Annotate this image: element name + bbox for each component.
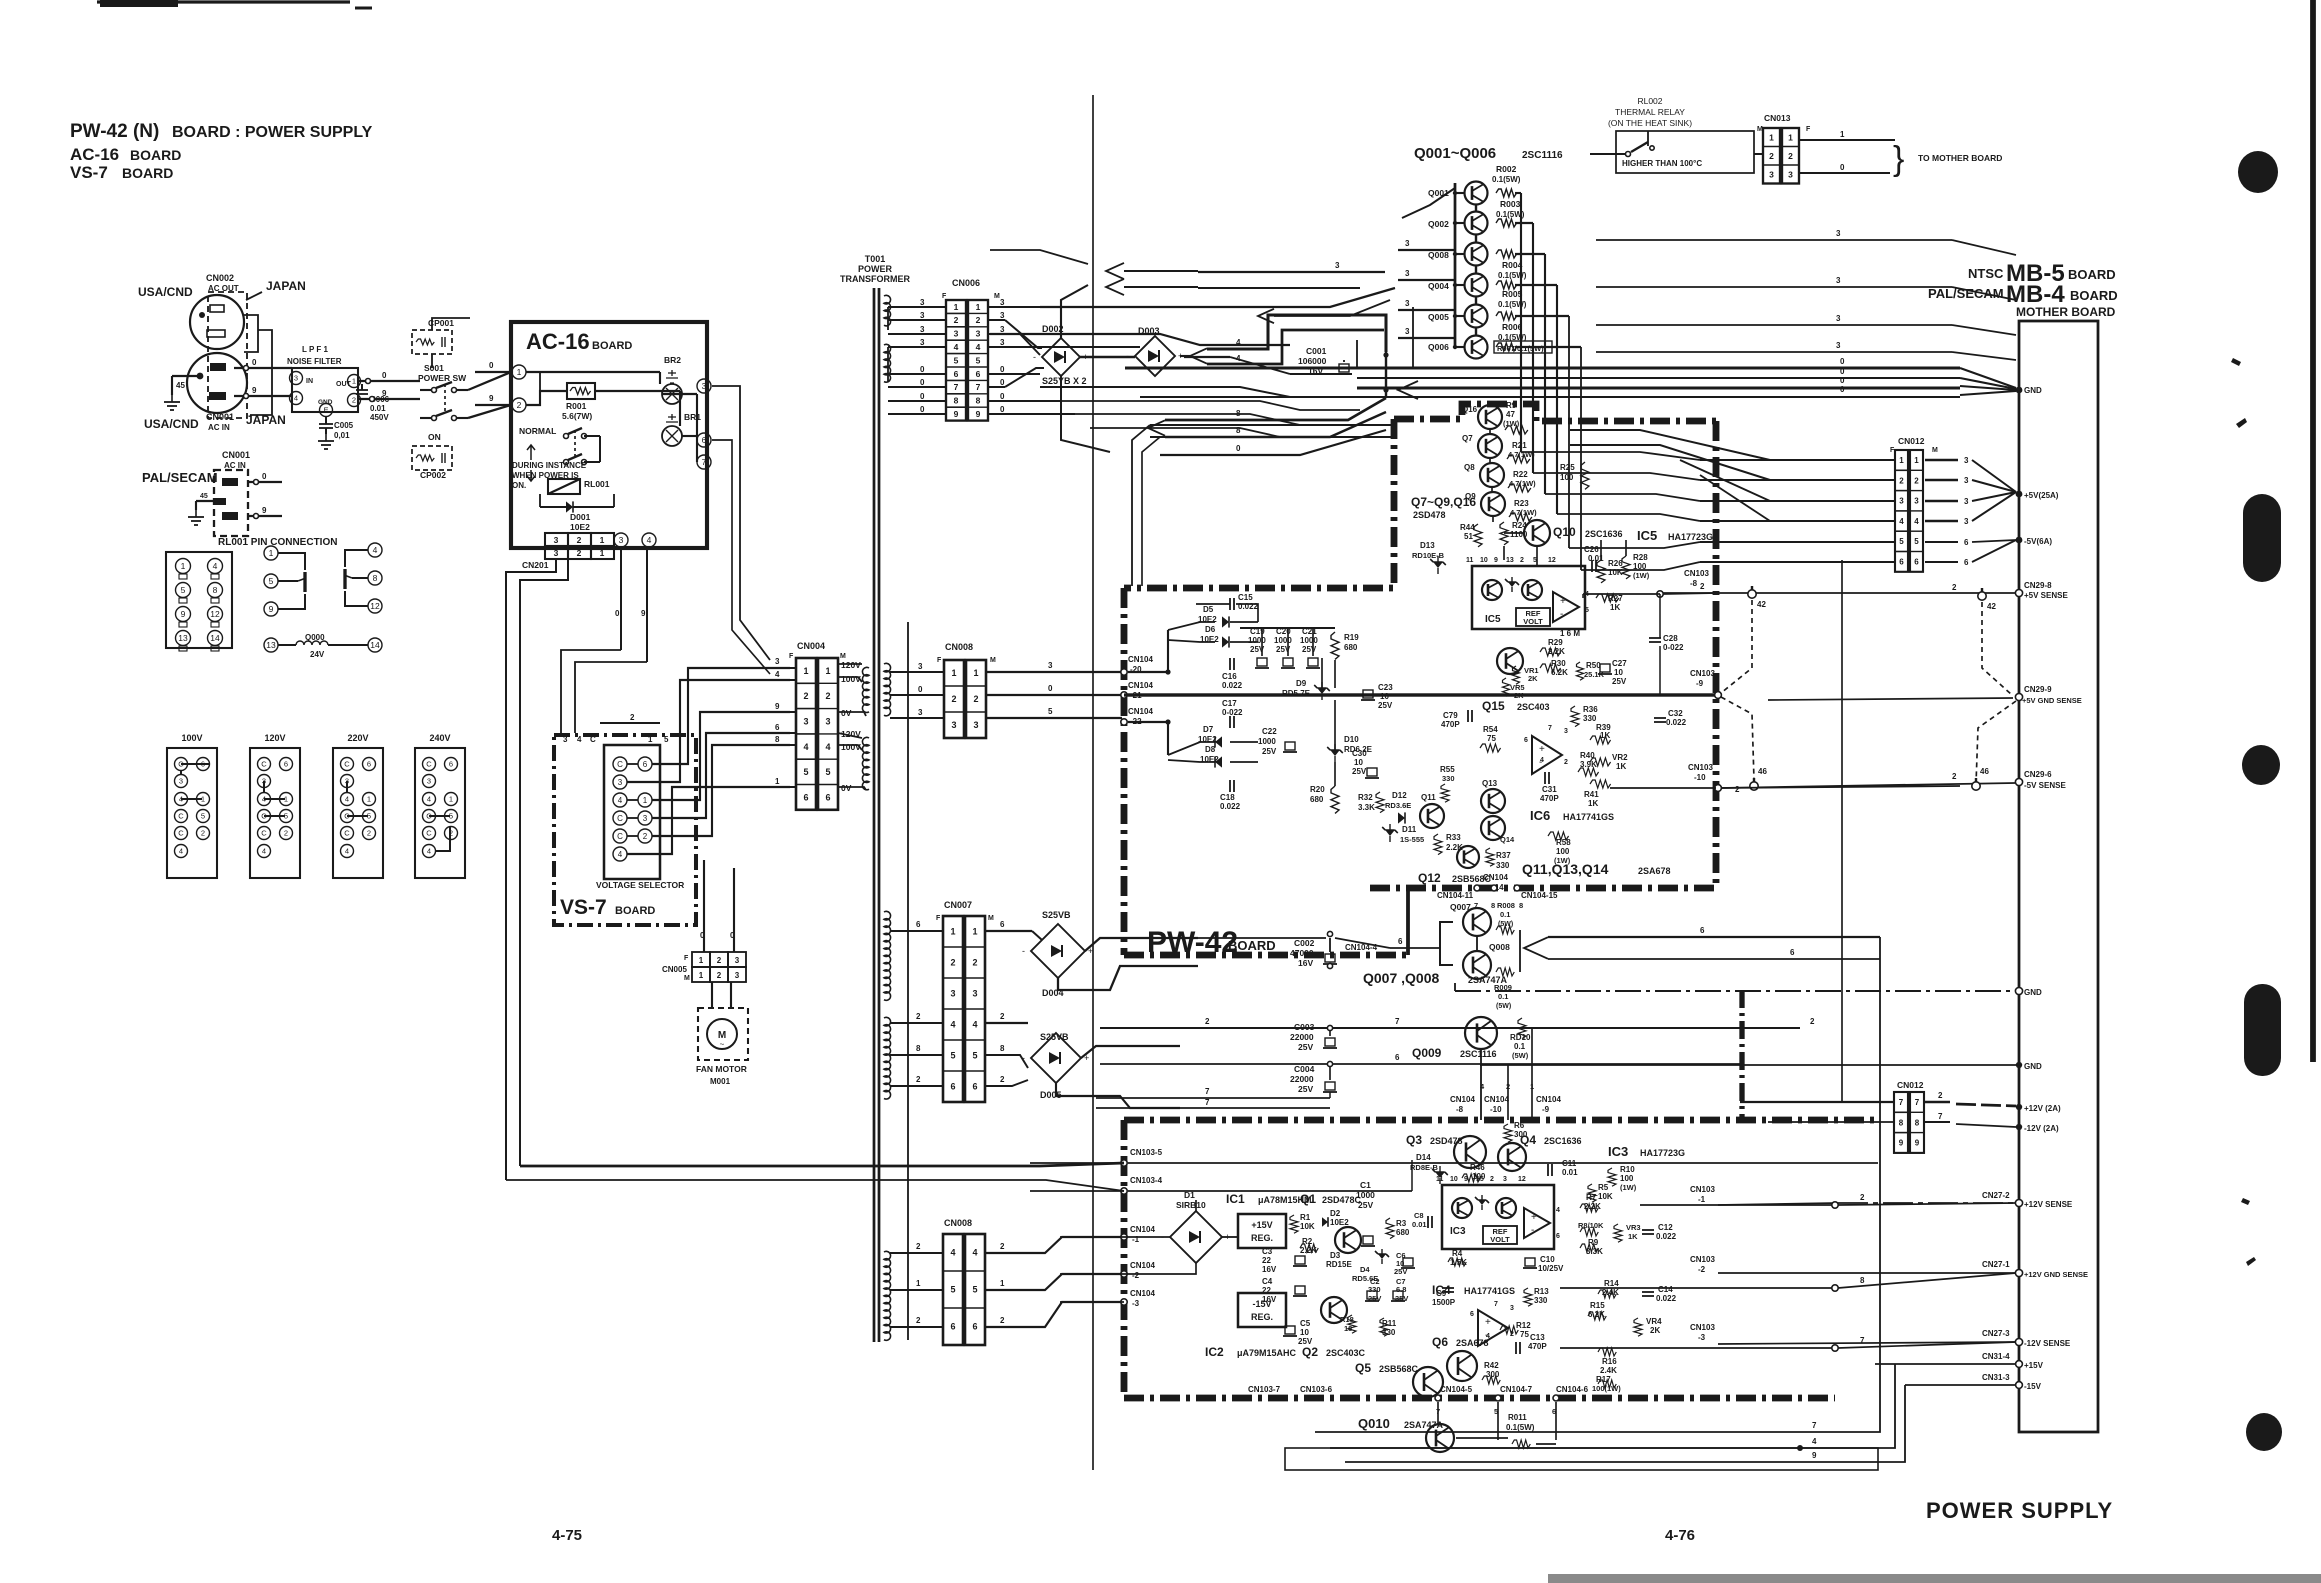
capacitor C4 (1293, 1286, 1307, 1296)
binder mark dot 3 (2246, 1413, 2282, 1451)
board AC-16 outline (511, 322, 707, 548)
svg-text:C3: C3 (1262, 1247, 1273, 1256)
transistor Q005 (1465, 305, 1488, 328)
filter pin 3 (290, 372, 303, 385)
resistor R006 (1496, 312, 1517, 320)
resistor R20 (1331, 786, 1339, 813)
selector wires internal (627, 763, 638, 765)
svg-text:680: 680 (1344, 643, 1358, 652)
svg-text:D2: D2 (1330, 1209, 1341, 1218)
svg-text:}: } (1893, 140, 1904, 178)
svg-text:C10: C10 (1540, 1255, 1555, 1264)
IC5 box (1472, 566, 1585, 629)
svg-text:2.4K: 2.4K (1600, 1366, 1617, 1375)
svg-text:C11: C11 (1562, 1159, 1577, 1168)
wire 8 lower (1165, 412, 1386, 437)
svg-text:CN005: CN005 (662, 965, 687, 974)
svg-text:C001: C001 (1306, 346, 1327, 356)
svg-text:2: 2 (1952, 772, 1957, 781)
svg-text:470P: 470P (1540, 794, 1559, 803)
svg-text:3: 3 (1564, 728, 1568, 735)
svg-text:0.1: 0.1 (1500, 910, 1510, 919)
svg-text:4: 4 (1540, 757, 1544, 764)
svg-text:9: 9 (262, 506, 267, 515)
svg-text:100: 100 (1556, 847, 1570, 856)
svg-text:R42: R42 (1484, 1361, 1499, 1370)
node 42 right (1978, 592, 1986, 600)
svg-text:3: 3 (973, 720, 978, 730)
svg-text:5: 5 (269, 576, 274, 586)
node -15V (2016, 1382, 2023, 1389)
resistor R8 (1580, 1228, 1598, 1236)
capacitor C27 (1598, 664, 1612, 674)
wire CN002 loop (244, 315, 258, 352)
svg-text:RD8E-B: RD8E-B (1410, 1163, 1439, 1172)
svg-text:47: 47 (1506, 410, 1515, 419)
wire -12V sense (1718, 1342, 2015, 1344)
svg-text:C32: C32 (1668, 709, 1683, 718)
svg-text:1: 1 (1899, 456, 1904, 465)
svg-text:CN004: CN004 (797, 641, 825, 651)
wire PAL out upper (248, 481, 282, 483)
svg-text:R9: R9 (1506, 401, 1517, 410)
svg-text:-10: -10 (1490, 1105, 1502, 1114)
svg-text:CN007: CN007 (944, 900, 972, 910)
capacitor C2 (1365, 1291, 1379, 1301)
svg-text:2.2K: 2.2K (1548, 647, 1565, 656)
svg-text:-1: -1 (1698, 1195, 1706, 1204)
capacitor C7 (1391, 1291, 1405, 1301)
svg-text:3: 3 (1405, 269, 1410, 278)
merge arrow 8-wires (1148, 420, 1165, 435)
svg-text:2SC403: 2SC403 (1517, 702, 1550, 712)
svg-text:6: 6 (1000, 920, 1005, 929)
svg-text:2: 2 (1564, 759, 1568, 766)
svg-text:7: 7 (1494, 1301, 1498, 1308)
svg-text:R15: R15 (1590, 1301, 1605, 1310)
svg-text:3: 3 (735, 956, 740, 965)
svg-text:4: 4 (950, 1248, 955, 1258)
svg-text:9: 9 (976, 409, 981, 419)
resistor R10 (1608, 1168, 1616, 1186)
svg-text:2: 2 (916, 1316, 921, 1325)
VR4 (1634, 1318, 1642, 1336)
svg-text:4.7(1W): 4.7(1W) (1510, 508, 1537, 517)
capacitor C9 (1442, 1288, 1454, 1292)
svg-text:2K: 2K (1528, 674, 1538, 683)
opamp IC6 (1532, 736, 1562, 774)
svg-text:1K: 1K (1616, 762, 1626, 771)
svg-text:0.022: 0.022 (1656, 1232, 1677, 1241)
svg-text:D14: D14 (1416, 1153, 1431, 1162)
svg-text:C8: C8 (1414, 1211, 1424, 1220)
svg-text:M: M (840, 653, 846, 660)
svg-text:15: 15 (1476, 1176, 1484, 1183)
svg-text:Q14: Q14 (1500, 835, 1515, 844)
transistor Q6 circle (1447, 1351, 1477, 1381)
REF VOLT box IC3 (1483, 1226, 1517, 1244)
svg-text:8: 8 (1860, 1276, 1865, 1285)
svg-text:D7: D7 (1203, 725, 1214, 734)
svg-text:D5: D5 (1203, 605, 1214, 614)
svg-text:Q7~Q9,Q16: Q7~Q9,Q16 (1411, 495, 1476, 509)
resistor R3 (1386, 1218, 1394, 1239)
svg-text:100: 100 (1560, 473, 1574, 482)
RL001 pin box (166, 552, 232, 648)
svg-text:+5V GND SENSE: +5V GND SENSE (2022, 696, 2082, 705)
svg-text:C: C (178, 829, 184, 838)
svg-text:CN27-1: CN27-1 (1982, 1260, 2010, 1269)
svg-text:6: 6 (1398, 937, 1403, 946)
svg-text:R11: R11 (1382, 1319, 1397, 1328)
svg-text:D6: D6 (1205, 625, 1216, 634)
Q007 box (1440, 922, 1453, 965)
svg-text:C: C (261, 760, 267, 769)
node +15V (2016, 1361, 2023, 1368)
svg-text:CN103: CN103 (1690, 1255, 1715, 1264)
capacitor C23 (1361, 690, 1375, 700)
resistor R13 (1524, 1288, 1532, 1306)
svg-text:4: 4 (775, 670, 780, 679)
svg-text:0: 0 (730, 931, 735, 940)
svg-text:2: 2 (1520, 557, 1524, 564)
svg-text:2: 2 (950, 958, 955, 968)
svg-text:Q1: Q1 (1300, 1192, 1316, 1206)
svg-text:+5V SENSE: +5V SENSE (2024, 591, 2068, 600)
svg-text:3: 3 (1964, 497, 1969, 506)
svg-text:16V: 16V (1262, 1265, 1277, 1274)
svg-text:5: 5 (803, 767, 808, 777)
svg-text:+15V: +15V (1251, 1220, 1272, 1230)
selector links 120V (263, 781, 265, 792)
svg-text:1: 1 (916, 1279, 921, 1288)
svg-text:3: 3 (643, 814, 648, 823)
node GND mid (2015, 987, 2022, 994)
svg-text:0: 0 (920, 378, 925, 387)
svg-text:25V: 25V (1262, 747, 1277, 756)
svg-text:2SC403C: 2SC403C (1326, 1348, 1366, 1358)
svg-text:D001: D001 (570, 512, 591, 522)
svg-text:12: 12 (1518, 1176, 1526, 1183)
svg-text:1: 1 (803, 666, 808, 676)
svg-text:R41: R41 (1584, 790, 1599, 799)
svg-text:Q11,Q13,Q14: Q11,Q13,Q14 (1522, 861, 1609, 877)
svg-text:3: 3 (950, 989, 955, 999)
svg-text:2: 2 (1735, 785, 1740, 794)
transistor Q4 circle (1498, 1143, 1526, 1171)
resistor R11 (1380, 1318, 1388, 1336)
svg-text:5: 5 (954, 355, 959, 365)
svg-text:5: 5 (181, 585, 186, 595)
svg-text:2: 2 (972, 958, 977, 968)
svg-text:R9: R9 (1588, 1238, 1599, 1247)
svg-text:Q5: Q5 (1355, 1361, 1371, 1375)
board PW-42 upper outline (1394, 404, 1716, 421)
svg-text:0: 0 (1840, 163, 1845, 172)
svg-text:GND: GND (2024, 988, 2042, 997)
svg-text:VS-7: VS-7 (560, 896, 607, 919)
wires CN005 to fan (711, 982, 713, 1008)
svg-text:-8: -8 (1456, 1105, 1464, 1114)
svg-text:TRANSFORMER: TRANSFORMER (840, 274, 910, 284)
svg-text:3: 3 (1836, 341, 1841, 350)
resistor R4 (1448, 1258, 1466, 1266)
capacitor C21 (1306, 658, 1320, 668)
scan artifact top-left bar (97, 0, 350, 3)
svg-text:CN29-9: CN29-9 (2024, 685, 2052, 694)
svg-text:HA17723G: HA17723G (1668, 532, 1713, 542)
svg-text:2: 2 (517, 400, 522, 410)
node GND mid2 (2016, 1062, 2022, 1068)
svg-text:R14: R14 (1604, 1279, 1619, 1288)
wire CN104-21 run (1128, 693, 1716, 696)
IC3 internal transistor b (1496, 1198, 1516, 1218)
resistor R58 (1548, 832, 1569, 840)
rail to CN103-4 (506, 1180, 1124, 1191)
wire 4 upper (1207, 315, 1386, 352)
svg-text:6: 6 (643, 760, 648, 769)
svg-text:C: C (617, 814, 623, 823)
svg-text:25V: 25V (1378, 701, 1393, 710)
svg-text:300: 300 (1486, 1370, 1500, 1379)
svg-text:Q000: Q000 (305, 633, 325, 642)
diode D11 (1382, 824, 1398, 842)
transistor Q009 (1465, 1017, 1497, 1049)
svg-text:-8: -8 (1690, 579, 1698, 588)
resistor R1 (1290, 1215, 1298, 1233)
svg-text:3: 3 (1510, 1305, 1514, 1312)
wires IC5 area vertical (1489, 429, 1491, 434)
wires lower bottom (1437, 1402, 1439, 1424)
selector links 100V (181, 763, 209, 765)
svg-text:HIGHER THAN 100°C: HIGHER THAN 100°C (1622, 159, 1702, 168)
svg-text:C: C (617, 832, 623, 841)
svg-text:ON: ON (428, 432, 441, 442)
wire PAL out lower (248, 515, 282, 517)
svg-text:VR2: VR2 (1612, 753, 1628, 762)
svg-text:R46: R46 (1470, 1163, 1485, 1172)
svg-text:1K: 1K (1610, 603, 1620, 612)
svg-text:7: 7 (1548, 725, 1552, 732)
svg-text:R28: R28 (1633, 553, 1648, 562)
mother board outline (2019, 321, 2098, 1432)
relay coil Q000 24V (278, 644, 296, 646)
svg-text:Q2: Q2 (1302, 1345, 1318, 1359)
svg-text:Q13: Q13 (1482, 779, 1498, 788)
svg-text:R26: R26 (1608, 559, 1623, 568)
svg-text:BOARD: BOARD (2068, 267, 2116, 282)
svg-text:100: 100 (1633, 562, 1647, 571)
transformer primary winding A (862, 667, 869, 712)
svg-text:AC-16: AC-16 (70, 145, 119, 164)
pin 12 circle (208, 607, 223, 622)
svg-text:RD10E-B: RD10E-B (1412, 551, 1445, 560)
svg-text:100: 100 (1620, 1174, 1634, 1183)
gnd sense to 46 dashes (1721, 697, 1754, 780)
svg-text:CN27-3: CN27-3 (1982, 1329, 2010, 1338)
resistor R002 (1496, 189, 1517, 197)
svg-text:R011: R011 (1508, 1413, 1527, 1422)
svg-text:10K: 10K (1598, 1192, 1613, 1201)
svg-text:-9: -9 (1542, 1105, 1550, 1114)
binder small mark d (2246, 1257, 2256, 1266)
svg-text:6: 6 (976, 369, 981, 379)
svg-text:4: 4 (1899, 517, 1904, 526)
svg-text:IC5: IC5 (1637, 528, 1657, 543)
svg-text:0: 0 (1840, 367, 1845, 376)
resistor R6 (1504, 1124, 1512, 1142)
svg-text:8: 8 (775, 735, 780, 744)
svg-text:3.9K: 3.9K (1580, 760, 1597, 769)
svg-text:R44: R44 (1460, 523, 1475, 532)
svg-text:7: 7 (1915, 1098, 1920, 1107)
svg-text:REG.: REG. (1251, 1233, 1273, 1243)
svg-text:IC3: IC3 (1608, 1144, 1628, 1159)
svg-text:PAL/SECAM: PAL/SECAM (1928, 286, 2004, 301)
svg-text:1K: 1K (1628, 1232, 1638, 1241)
svg-text:100(1W): 100(1W) (1592, 1384, 1621, 1393)
svg-text:D9: D9 (1296, 679, 1307, 688)
resistor R28 (1622, 556, 1630, 579)
svg-text:CN008: CN008 (944, 1218, 972, 1228)
svg-text:9: 9 (954, 409, 959, 419)
svg-text:C: C (344, 829, 350, 838)
capacitor C10 (1523, 1258, 1537, 1268)
svg-text:Q005: Q005 (1428, 312, 1449, 322)
svg-text:IC4: IC4 (1432, 1283, 1451, 1297)
svg-text:CN012: CN012 (1897, 1080, 1924, 1090)
svg-text:2: 2 (1769, 151, 1774, 161)
svg-text:470P: 470P (1441, 720, 1460, 729)
VR5 2K (1503, 678, 1510, 696)
svg-text:PAL/SECAM: PAL/SECAM (142, 470, 218, 485)
transformer winding top B (884, 344, 891, 382)
zener D10 (1327, 744, 1343, 762)
svg-text:4: 4 (213, 561, 218, 571)
svg-text:240V: 240V (429, 733, 450, 743)
relay contacts in AC-16 (564, 434, 569, 439)
transistor Q11 (1420, 804, 1444, 828)
svg-text:6: 6 (950, 1082, 955, 1092)
svg-text:C003: C003 (1294, 1022, 1315, 1032)
svg-text:R58: R58 (1556, 838, 1571, 847)
svg-text:220V: 220V (347, 733, 368, 743)
resistor R39 (1590, 736, 1611, 744)
svg-text:1: 1 (600, 548, 605, 558)
svg-text:9: 9 (775, 702, 780, 711)
svg-text:75: 75 (1487, 734, 1496, 743)
svg-text:2: 2 (1000, 1012, 1005, 1021)
svg-text:25V: 25V (1352, 767, 1367, 776)
svg-text:11: 11 (1466, 557, 1474, 564)
VR3 (1614, 1224, 1622, 1242)
wires out bottom right (1315, 1431, 1800, 1433)
svg-text:3: 3 (972, 989, 977, 999)
svg-text:-: - (1033, 352, 1036, 362)
svg-text:3: 3 (1000, 325, 1005, 334)
svg-text:1: 1 (449, 795, 453, 804)
svg-text:2SC1116: 2SC1116 (1460, 1049, 1497, 1059)
connector CN001 AC IN (187, 353, 247, 413)
svg-text:R6: R6 (1514, 1121, 1525, 1130)
svg-text:Q007 ,Q008: Q007 ,Q008 (1363, 970, 1439, 986)
42 left dashed drop (1721, 600, 1752, 693)
svg-text:CN008: CN008 (945, 642, 973, 652)
svg-text:PW-42 (N): PW-42 (N) (70, 121, 159, 142)
svg-text:2: 2 (916, 1012, 921, 1021)
svg-text:VOLTAGE SELECTOR: VOLTAGE SELECTOR (596, 880, 684, 890)
svg-text:R50: R50 (1586, 661, 1601, 670)
svg-text:0: 0 (382, 371, 387, 380)
capacitor C005 (325, 417, 327, 424)
svg-text:3: 3 (775, 657, 780, 666)
svg-text:5.6(7W): 5.6(7W) (562, 411, 592, 421)
svg-text:6: 6 (1700, 926, 1705, 935)
svg-text:R1: R1 (1300, 1213, 1311, 1222)
noise filter box (292, 368, 358, 412)
svg-text:1: 1 (699, 956, 704, 965)
svg-text:0: 0 (918, 685, 923, 694)
svg-text:F: F (684, 955, 689, 962)
svg-text:POWER: POWER (858, 264, 893, 274)
IC5 internal transistor b (1522, 580, 1542, 600)
svg-text:8: 8 (976, 396, 981, 406)
svg-text:M: M (988, 915, 994, 922)
svg-text:Q11: Q11 (1421, 793, 1436, 802)
svg-text:2: 2 (951, 694, 956, 704)
resistor R33 (1434, 834, 1442, 855)
node +5V GND SENSE (2015, 693, 2022, 700)
svg-text:C002: C002 (1294, 938, 1315, 948)
svg-text:NOISE FILTER: NOISE FILTER (287, 357, 342, 366)
svg-text:3: 3 (918, 662, 923, 671)
capacitor C11 (1548, 1164, 1552, 1176)
svg-text:0.022: 0.022 (1666, 718, 1687, 727)
svg-text:5: 5 (1899, 537, 1904, 546)
svg-text:8: 8 (213, 585, 218, 595)
transformer secondary winding CN008L (884, 1251, 891, 1340)
svg-text:6: 6 (1395, 1053, 1400, 1062)
AC-16 right pin 6 (697, 433, 711, 447)
svg-text:3: 3 (1836, 314, 1841, 323)
wire 0 bottom (1160, 430, 1386, 455)
svg-text:D13: D13 (1420, 541, 1435, 550)
wires CN006 out right (988, 306, 1040, 308)
IC4 opamp (1478, 1310, 1508, 1346)
svg-text:2: 2 (954, 315, 959, 325)
wires D005 out (1081, 1046, 1180, 1058)
svg-text:13: 13 (266, 640, 276, 650)
svg-text:R10: R10 (1620, 1165, 1635, 1174)
svg-text:1S-555: 1S-555 (1400, 835, 1424, 844)
svg-text:CN012: CN012 (1898, 436, 1925, 446)
wires CN008 lower right (985, 1237, 1124, 1253)
resistor R007 (1496, 343, 1517, 351)
svg-text:D8: D8 (1205, 745, 1216, 754)
svg-text:3: 3 (618, 778, 623, 787)
svg-text:C15: C15 (1238, 593, 1253, 602)
capacitor C5 (1283, 1326, 1297, 1336)
svg-text:3: 3 (976, 329, 981, 339)
svg-text:C27: C27 (1612, 659, 1627, 668)
svg-text:330: 330 (1534, 1296, 1548, 1305)
svg-text:BOARD: BOARD (1228, 938, 1276, 953)
svg-text:1: 1 (976, 302, 981, 312)
wires CN008 lower left (890, 1252, 943, 1254)
svg-text:R006: R006 (1502, 322, 1523, 332)
svg-text:C14: C14 (1658, 1285, 1673, 1294)
svg-text:6: 6 (1964, 558, 1969, 567)
